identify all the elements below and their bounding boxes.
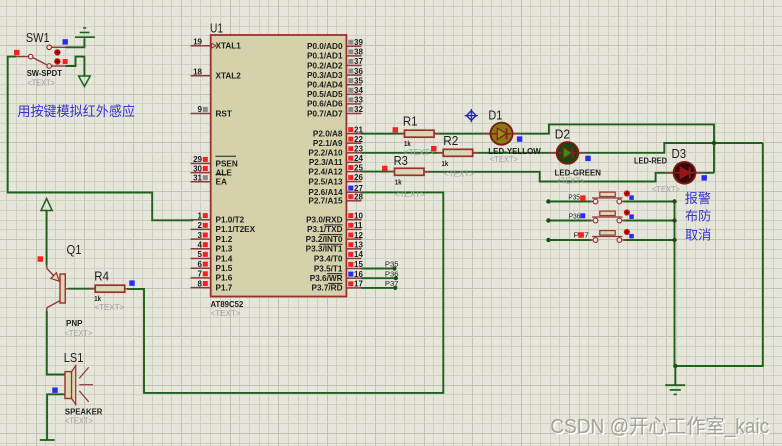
label LED-RED (634, 156, 667, 165)
label D3 (672, 147, 687, 161)
wire P35 button right (624, 201, 675, 203)
LED D3 red (666, 162, 704, 184)
svg-text:16: 16 (354, 270, 363, 279)
label P37 (button) (574, 231, 590, 240)
label LS1 (64, 351, 84, 365)
resistor R1 1k (399, 115, 440, 157)
svg-text:32: 32 (354, 105, 363, 114)
svg-text:8: 8 (198, 279, 203, 288)
svg-text:<TEXT>: <TEXT> (404, 148, 434, 157)
svg-text:7: 7 (198, 270, 203, 279)
svg-text:39: 39 (354, 38, 363, 47)
svg-text:P3.6/WR: P3.6/WR (310, 274, 343, 283)
svg-text:P0.6/AD6: P0.6/AD6 (307, 100, 343, 109)
svg-text:22: 22 (354, 135, 363, 144)
svg-text:P3.0/RXD: P3.0/RXD (306, 216, 342, 225)
svg-text:LS1: LS1 (64, 351, 84, 365)
net label P35 (U1 side) (385, 260, 399, 269)
wire button rail (674, 202, 676, 367)
svg-text:<TEXT>: <TEXT> (444, 170, 474, 179)
svg-text:P0.2/AD2: P0.2/AD2 (307, 61, 343, 70)
wire SW1 common to U1 pin1 (left rail) (8, 57, 193, 221)
ground bar (LS1) (40, 439, 55, 441)
switch SW1 SW-SPDT (16, 45, 66, 68)
svg-text:P35: P35 (568, 193, 580, 202)
svg-text:29: 29 (193, 155, 202, 164)
switch SW1 state indicator bottom (54, 58, 60, 64)
svg-text:5: 5 (198, 250, 203, 259)
svg-text:1k: 1k (404, 139, 411, 148)
wire SW1 bottom contact to ground arrow (66, 57, 85, 76)
svg-text:P36: P36 (569, 211, 581, 220)
wire Q1 emitter to power arrow (46, 211, 48, 265)
label D2 TEXT placeholder (557, 176, 585, 185)
marker red square Q1 (38, 256, 43, 261)
svg-text:<TEXT>: <TEXT> (65, 417, 93, 426)
svg-text:12: 12 (354, 231, 363, 240)
svg-text:XTAL2: XTAL2 (216, 72, 242, 81)
IC U1 AT89C52 microcontroller (191, 35, 364, 297)
wire D2 output (579, 143, 763, 153)
resistor R2 1k (438, 134, 479, 178)
svg-text:D1: D1 (488, 108, 502, 122)
svg-text:P3.7/RD: P3.7/RD (312, 284, 343, 293)
svg-text:13: 13 (354, 241, 363, 250)
svg-text:报警: 报警 (685, 191, 711, 206)
svg-text:31: 31 (193, 174, 202, 183)
svg-text:R4: R4 (94, 270, 109, 284)
svg-text:P0.3/AD3: P0.3/AD3 (307, 71, 343, 80)
svg-text:P1.5: P1.5 (216, 264, 233, 273)
svg-text:25: 25 (354, 163, 363, 172)
svg-text:PNP: PNP (66, 319, 83, 328)
svg-text:R3: R3 (394, 154, 408, 168)
wire Q1 base to R4 (68, 288, 95, 290)
marker blue square D1 (517, 136, 522, 141)
svg-text:P1.1/T2EX: P1.1/T2EX (216, 225, 256, 234)
svg-text:P2.0/A8: P2.0/A8 (313, 130, 343, 139)
switch SW1 state indicator top (54, 49, 60, 55)
label AT89C52 (211, 300, 244, 309)
svg-text:4: 4 (198, 241, 203, 250)
svg-text:Q1: Q1 (67, 243, 82, 257)
origin marker (blue crosshair) (465, 109, 478, 122)
label D3 TEXT placeholder (652, 185, 680, 194)
svg-text:<TEXT>: <TEXT> (490, 155, 518, 164)
wire D1 output (512, 124, 714, 143)
svg-text:P36: P36 (385, 269, 399, 278)
svg-text:21: 21 (354, 125, 363, 134)
label D1 TEXT placeholder (490, 155, 518, 164)
wire P36 button right (624, 220, 675, 222)
svg-text:LED-RED: LED-RED (634, 156, 667, 165)
label U1 TEXT placeholder (211, 309, 241, 318)
svg-text:11: 11 (354, 221, 363, 230)
svg-text:26: 26 (354, 173, 363, 182)
label P36 (button) (569, 211, 585, 220)
svg-text:AT89C52: AT89C52 (211, 300, 244, 309)
svg-text:37: 37 (354, 57, 363, 66)
push button P36 (arm) (590, 209, 634, 223)
svg-text:用按键模拟红外感应: 用按键模拟红外感应 (17, 103, 135, 119)
svg-text:P2.1/A9: P2.1/A9 (313, 139, 343, 148)
svg-text:17: 17 (354, 280, 363, 289)
label LED-YELLOW (488, 147, 541, 156)
transistor Q1 PNP (47, 265, 69, 312)
wire R2 to D2 (472, 152, 558, 154)
push button P35 (alarm) (590, 190, 634, 204)
svg-text:P37: P37 (385, 279, 399, 288)
svg-text:1k: 1k (442, 159, 449, 168)
label LED-GREEN (555, 168, 602, 177)
svg-text:3: 3 (198, 231, 203, 240)
svg-text:1k: 1k (395, 178, 402, 187)
wire net P35 stub (361, 266, 397, 270)
label SW1 TEXT placeholder (27, 78, 55, 87)
watermark CSDN (550, 415, 771, 439)
svg-text:<TEXT>: <TEXT> (27, 78, 55, 87)
annotation Chinese text (IR sensing) (17, 103, 135, 119)
svg-text:P0.5/AD5: P0.5/AD5 (307, 90, 343, 99)
svg-text:P3.3/INT1: P3.3/INT1 (306, 245, 343, 254)
svg-text:R1: R1 (403, 115, 418, 129)
svg-text:<TEXT>: <TEXT> (211, 309, 241, 318)
svg-text:U1: U1 (210, 22, 223, 36)
wire R3 to D3 (424, 172, 674, 182)
wire net P37 stub (361, 286, 397, 290)
svg-text:34: 34 (354, 86, 363, 95)
label U1 (210, 22, 223, 36)
svg-text:P1.2: P1.2 (216, 235, 233, 244)
label SW-SPDT (27, 69, 62, 78)
svg-text:P0.7/AD7: P0.7/AD7 (307, 109, 343, 118)
svg-text:SW1: SW1 (26, 31, 50, 45)
marker blue square LS1 (52, 388, 57, 393)
svg-text:R2: R2 (443, 134, 458, 148)
label LS1 TEXT placeholder (65, 417, 93, 426)
svg-text:D2: D2 (555, 127, 570, 141)
label PNP (66, 319, 83, 328)
svg-text:6: 6 (198, 260, 203, 269)
ground symbol (bottom right) (665, 385, 685, 394)
svg-text:36: 36 (354, 67, 363, 76)
label Q1 TEXT placeholder (64, 329, 92, 338)
svg-text:1k: 1k (94, 294, 101, 303)
marker blue square SW1 (63, 39, 68, 44)
svg-text:38: 38 (354, 48, 363, 57)
wire right rail to ground (675, 143, 763, 366)
junction button rail row3 (672, 238, 676, 242)
net label P37 (U1 side) (385, 279, 399, 288)
svg-text:P1.7: P1.7 (216, 283, 233, 292)
svg-text:P2.2/A10: P2.2/A10 (308, 149, 343, 158)
label SW1 (26, 31, 50, 45)
svg-text:18: 18 (193, 67, 202, 76)
svg-text:XTAL1: XTAL1 (216, 42, 242, 51)
svg-text:P3.2/INT0: P3.2/INT0 (306, 235, 343, 244)
label D1 (488, 108, 502, 122)
svg-text:布防: 布防 (685, 208, 711, 223)
ground arrow (SW1) (79, 76, 91, 87)
wire P37 button left (546, 238, 591, 242)
wire LED rail vertical (713, 143, 715, 173)
wire U1 pin21 to R1 (361, 133, 405, 135)
junction button rail row1 (672, 199, 676, 203)
svg-text:P1.0/T2: P1.0/T2 (216, 216, 245, 225)
svg-text:28: 28 (354, 193, 363, 202)
label D2 (555, 127, 570, 141)
annotation Chinese cancel (685, 228, 711, 243)
svg-text:33: 33 (354, 96, 363, 105)
svg-text:19: 19 (193, 37, 202, 46)
svg-text:PSEN: PSEN (216, 159, 238, 168)
wire SW1 top contact to power (66, 38, 85, 47)
wire LS1 to ground bar (47, 394, 65, 440)
svg-text:EA: EA (216, 178, 227, 187)
svg-text:P1.4: P1.4 (216, 254, 233, 263)
marker red square SW1 left (14, 50, 19, 55)
push button P37 (cancel) (590, 229, 634, 243)
svg-text:P2.7/A15: P2.7/A15 (308, 197, 343, 206)
LED D2 green (549, 142, 587, 164)
marker blue square D2 (585, 156, 590, 161)
wire P36 button left (546, 218, 591, 222)
wire U1 pin25 to R3 (361, 171, 395, 173)
svg-text:SPEAKER: SPEAKER (65, 408, 103, 417)
svg-text:CSDN @开心工作室_kaic: CSDN @开心工作室_kaic (550, 415, 769, 438)
svg-text:14: 14 (354, 250, 363, 259)
svg-text:P3.4/T0: P3.4/T0 (314, 254, 343, 263)
LED D1 yellow (483, 123, 521, 145)
wire net P36 stub (361, 276, 398, 280)
marker red square R3 (382, 166, 387, 171)
svg-text:P2.4/A12: P2.4/A12 (308, 167, 343, 176)
svg-text:SW-SPDT: SW-SPDT (27, 69, 62, 78)
label P35 (button) (568, 193, 585, 202)
wire ground drop (674, 366, 676, 385)
marker red square R1 (393, 127, 398, 132)
marker blue square R4 (129, 280, 134, 285)
svg-text:9: 9 (198, 105, 203, 114)
svg-text:ALE: ALE (216, 168, 233, 177)
svg-text:P1.6: P1.6 (216, 274, 233, 283)
svg-text:P3.1/TXD: P3.1/TXD (307, 225, 343, 234)
svg-text:<TEXT>: <TEXT> (557, 176, 585, 185)
svg-text:24: 24 (354, 154, 363, 163)
svg-text:P0.1/AD1: P0.1/AD1 (307, 52, 343, 61)
speaker LS1 (65, 366, 93, 405)
svg-text:P2.5/A13: P2.5/A13 (308, 177, 343, 186)
svg-text:<TEXT>: <TEXT> (94, 303, 124, 312)
marker red square SW1 bottom (63, 59, 68, 64)
label SPEAKER (65, 408, 103, 417)
resistor R4 1k (90, 270, 131, 312)
svg-text:23: 23 (354, 145, 363, 154)
wire Q1 collector to LS1 (47, 311, 65, 375)
svg-text:P35: P35 (385, 260, 399, 269)
svg-text:10: 10 (354, 211, 363, 220)
junction LED rail (712, 141, 716, 145)
wire R1 to D1 (434, 133, 491, 135)
svg-text:P3.5/T1: P3.5/T1 (314, 264, 343, 273)
svg-text:30: 30 (193, 164, 202, 173)
svg-text:P1.3: P1.3 (216, 245, 233, 254)
svg-text:<TEXT>: <TEXT> (652, 185, 680, 194)
svg-text:2: 2 (198, 221, 203, 230)
wire U1 pin27 to R4 (via bottom) (127, 192, 443, 393)
svg-text:35: 35 (354, 76, 363, 85)
svg-text:1: 1 (198, 211, 203, 220)
svg-text:P2.3/A11: P2.3/A11 (309, 158, 343, 167)
wire D3 to LED rail (696, 172, 715, 174)
label Q1 (67, 243, 82, 257)
junction button rail row2 (672, 218, 676, 222)
marker blue square D3 (702, 175, 707, 180)
svg-text:<TEXT>: <TEXT> (395, 190, 425, 199)
power symbol VCC (SW1) (75, 28, 95, 37)
annotation Chinese alarm (685, 191, 711, 206)
wire U1 pin23 to R2 (361, 152, 444, 154)
net label P36 (U1 side) (385, 269, 399, 278)
svg-text:取消: 取消 (685, 228, 711, 243)
power arrow symbol (Q1) (41, 199, 52, 211)
svg-text:RST: RST (216, 109, 232, 118)
resistor R3 1k (389, 154, 430, 199)
svg-text:15: 15 (354, 260, 363, 269)
svg-text:P0.0/AD0: P0.0/AD0 (307, 42, 343, 51)
marker red square R2 (431, 146, 436, 151)
svg-text:D3: D3 (672, 147, 687, 161)
wire P37 button right (624, 239, 675, 241)
svg-text:<TEXT>: <TEXT> (64, 329, 92, 338)
wire P35 button left (546, 199, 591, 203)
annotation Chinese arm (685, 208, 711, 223)
svg-text:P0.4/AD4: P0.4/AD4 (307, 81, 343, 90)
junction ground node (673, 364, 677, 368)
